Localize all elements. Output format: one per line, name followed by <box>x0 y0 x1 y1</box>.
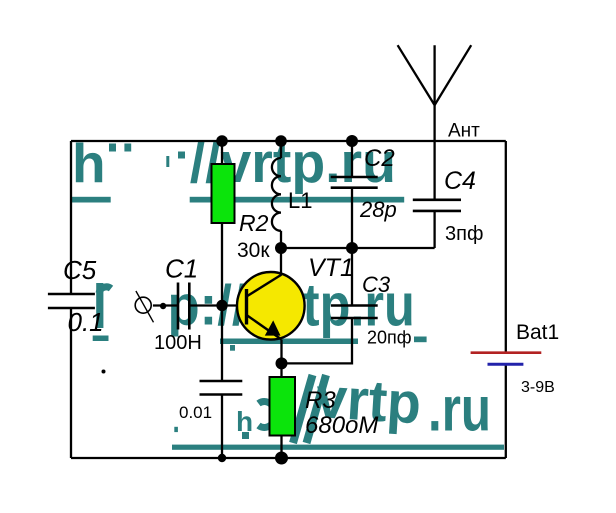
frame wire bottom <box>71 457 506 459</box>
svg-text:0.01: 0.01 <box>179 403 212 422</box>
resistor R2 <box>212 164 235 223</box>
resistor R3 <box>270 377 296 436</box>
capacitor C4 plates <box>413 200 461 211</box>
capacitor C5 plates <box>48 294 95 308</box>
microphone BM <box>135 297 151 313</box>
svg-text:3-9В: 3-9В <box>521 379 555 396</box>
node L1 bottom <box>275 242 287 254</box>
svg-text:680оМ: 680оМ <box>305 412 378 439</box>
frame wire right <box>505 141 507 458</box>
node top 3 <box>346 135 358 147</box>
frame wire top <box>71 140 506 142</box>
wire C2 top <box>351 141 353 177</box>
node top 2 <box>275 135 287 147</box>
wire C3 bottom to emitter <box>282 318 353 363</box>
frame wire left <box>70 141 72 458</box>
watermark row3 slash 1 <box>293 375 313 443</box>
capacitor C3 plates <box>331 306 378 319</box>
svg-text:R3: R3 <box>305 387 336 414</box>
node bottom left <box>218 454 226 462</box>
battery Bat1 short plate <box>488 363 524 366</box>
capacitor 0.01 plates <box>200 381 243 395</box>
svg-text:0.1: 0.1 <box>68 307 104 337</box>
watermark row3 dot fragment <box>242 432 249 439</box>
node bottom right <box>275 452 288 465</box>
watermark row2 descender tip <box>230 345 235 351</box>
transistor base bar <box>245 289 248 325</box>
node top 1 <box>216 135 228 147</box>
transistor collector line <box>247 275 282 297</box>
wire C1 to base junction <box>189 304 246 306</box>
node mic <box>160 303 166 309</box>
watermark row3 slash 2 <box>307 375 327 443</box>
capacitor C4 wire top <box>433 141 435 200</box>
wire R2 bottom to 0.01 <box>221 223 223 381</box>
node C2 bottom <box>346 242 358 254</box>
svg-text:C5: C5 <box>63 255 97 285</box>
antenna arms <box>398 45 472 105</box>
node base junction <box>216 300 227 311</box>
antenna mast <box>433 45 435 141</box>
svg-text:30к: 30к <box>237 239 270 262</box>
watermark row2 underline seg1 <box>220 339 358 345</box>
svg-text:C4: C4 <box>444 167 476 195</box>
svg-text:C3: C3 <box>362 272 391 297</box>
svg-text:Ант: Ант <box>448 121 480 142</box>
svg-text:28p: 28p <box>359 197 397 222</box>
wire L1 top <box>280 141 282 158</box>
node emitter junction <box>276 357 288 369</box>
watermark row1 underline seg1 <box>72 197 111 203</box>
battery Bat1 long plate <box>471 351 542 354</box>
wire mic to C1 <box>153 304 178 306</box>
svg-text:Bat1: Bat1 <box>516 321 559 344</box>
transistor emitter line <box>247 315 282 340</box>
wire C3 top <box>351 248 353 306</box>
svg-text:VT1: VT1 <box>308 254 354 282</box>
speck <box>102 370 106 374</box>
wire C4 bottom <box>433 211 435 248</box>
watermark row1 t-top fragment <box>109 144 116 152</box>
wire collector bus y248 <box>281 247 435 249</box>
svg-text:.ru: .ru <box>428 375 491 445</box>
svg-text:3пф: 3пф <box>445 223 483 245</box>
microphone slash <box>136 291 154 322</box>
watermark row3 c-curve fragment <box>259 402 276 428</box>
transistor emitter arrow <box>265 320 281 335</box>
svg-text:C2: C2 <box>364 145 395 172</box>
watermark row1 underline seg2 <box>190 197 405 203</box>
watermark row2 r curl <box>99 287 111 293</box>
transistor VT1 body <box>237 272 305 340</box>
svg-text:100Н: 100Н <box>154 332 202 354</box>
watermark row3 tiny mark <box>174 427 178 432</box>
inductor L1 <box>272 158 281 231</box>
watermark row2 underline dash left <box>93 336 109 342</box>
watermark row2 underline dash right <box>414 337 427 343</box>
watermark row1 t-top fragment 2 <box>124 144 131 152</box>
watermark row1 colon dot <box>178 152 185 159</box>
svg-text:C1: C1 <box>165 254 198 284</box>
capacitor C2 plates <box>331 177 378 188</box>
watermark row2 r fragment <box>96 283 103 328</box>
wire collector <box>280 248 282 275</box>
wire emitter down <box>280 340 282 378</box>
wire R3 bottom <box>280 436 282 459</box>
svg-text:L1: L1 <box>288 188 312 213</box>
wire R2 top <box>221 141 223 164</box>
svg-text:R2: R2 <box>239 210 269 236</box>
capacitor C1 plates <box>178 283 189 330</box>
svg-text:20пф: 20пф <box>367 328 412 348</box>
wire 0.01 to bottom <box>221 395 223 459</box>
watermark row1 p sliver <box>166 156 169 167</box>
wire C2 bottom <box>351 188 353 248</box>
watermark row3 underline <box>172 445 504 450</box>
wire L1 bottom <box>280 231 282 248</box>
